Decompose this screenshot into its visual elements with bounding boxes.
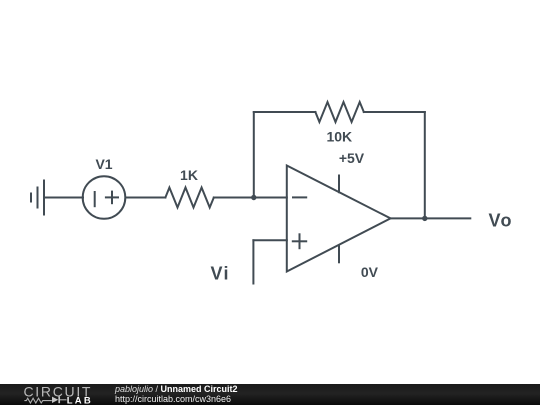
svg-text:LAB: LAB <box>67 395 93 405</box>
wire feedback top right <box>364 111 425 113</box>
wire output <box>390 217 470 219</box>
wire non-inverting input horizontal <box>253 239 286 241</box>
wire V1 to R1 <box>126 196 165 198</box>
node junction dot output <box>422 216 427 221</box>
svg-text:0V: 0V <box>361 264 379 280</box>
svg-text:Vi: Vi <box>210 263 229 283</box>
logo resistor zigzag <box>24 398 51 403</box>
wire feedback right vertical <box>424 112 426 218</box>
wire feedback left vertical <box>253 112 255 198</box>
op-amp U1 <box>287 166 391 272</box>
voltage source V1 <box>83 176 126 219</box>
op-amp positive supply pin <box>338 176 340 193</box>
node junction dot inverting input <box>251 195 256 200</box>
op-amp negative supply pin <box>338 246 340 263</box>
svg-text:V1: V1 <box>95 156 112 172</box>
svg-text:+5V: +5V <box>339 150 365 166</box>
svg-text:1K: 1K <box>180 167 198 183</box>
wire R1 to op-amp inverting input <box>214 196 287 198</box>
resistor R2 10K <box>315 102 363 122</box>
logo diode symbol <box>52 396 67 403</box>
svg-text:http://circuitlab.com/cw3n6e6: http://circuitlab.com/cw3n6e6 <box>115 394 231 404</box>
wire ground to V1 <box>44 196 83 198</box>
svg-text:Vo: Vo <box>488 210 512 230</box>
ground <box>31 180 44 214</box>
resistor R1 1K <box>165 187 213 207</box>
svg-text:10K: 10K <box>326 129 352 145</box>
wire feedback top left <box>254 111 316 113</box>
wire Vi vertical <box>252 240 254 283</box>
svg-text:pablojulio / Unnamed Circuit2: pablojulio / Unnamed Circuit2 <box>114 384 238 394</box>
